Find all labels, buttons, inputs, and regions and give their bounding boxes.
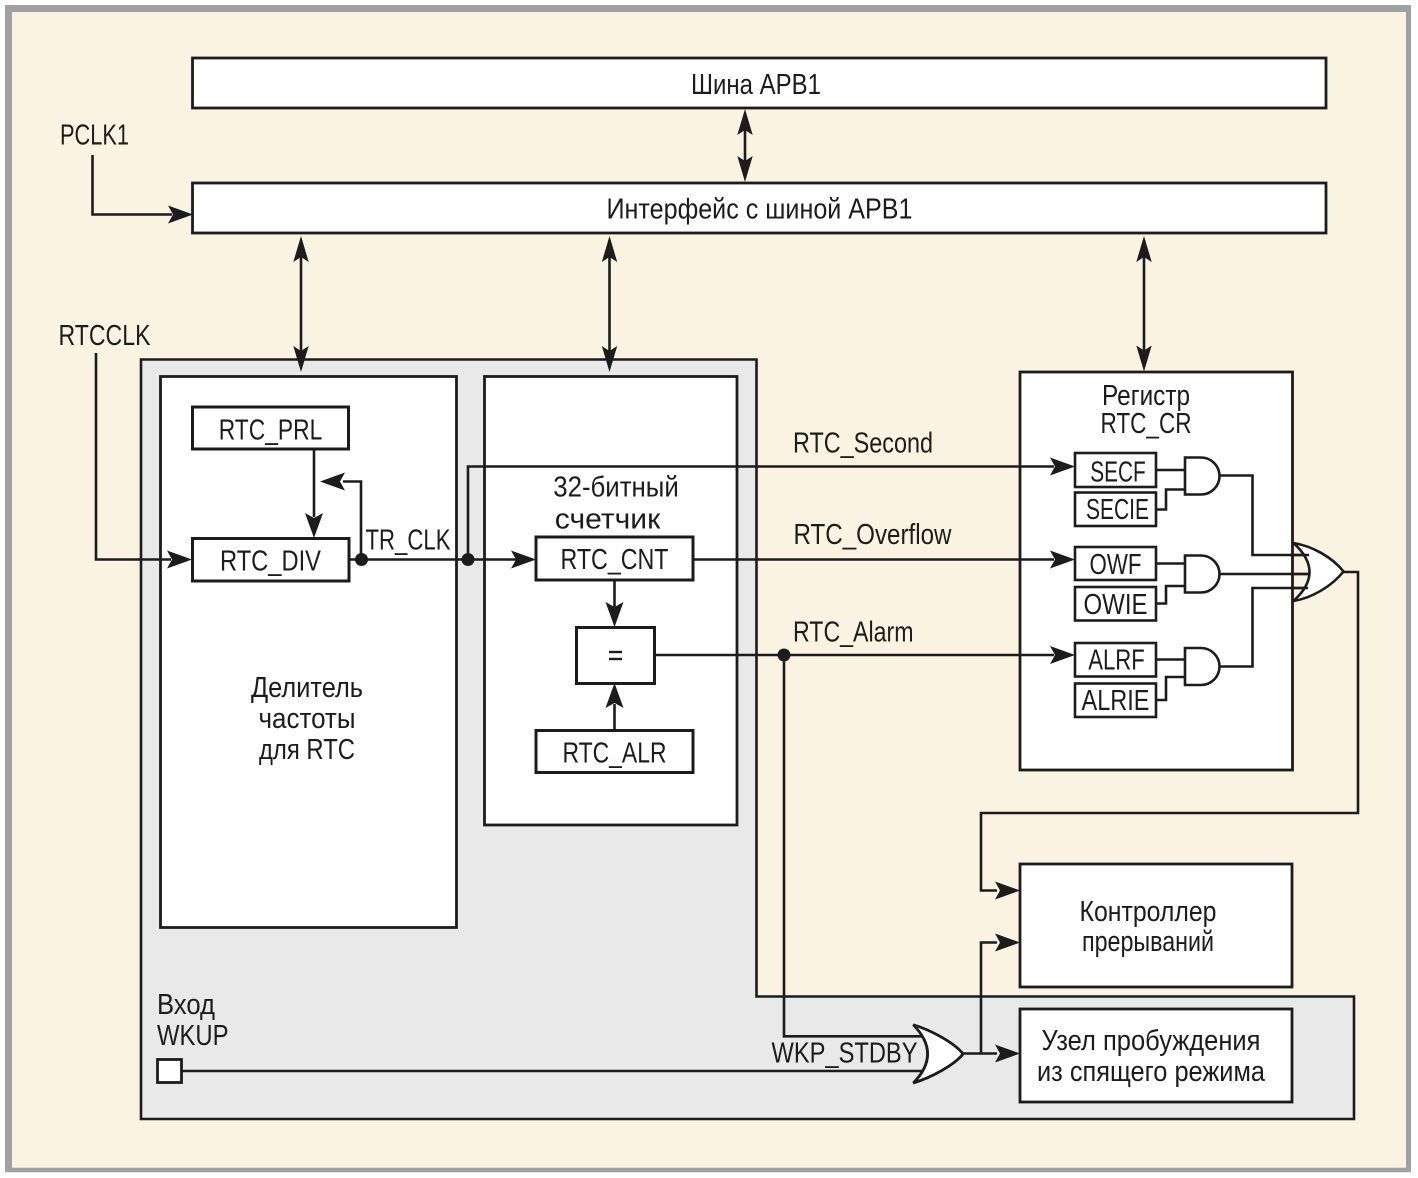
box: interrupt controller — [1020, 864, 1292, 987]
wire: alarm down to wakeup OR — [784, 655, 928, 1036]
svg-text:RTC_PRL: RTC_PRL — [219, 415, 323, 447]
svg-text:RTC_Overflow: RTC_Overflow — [794, 519, 953, 551]
box ALRIE — [1075, 684, 1156, 718]
wire: AND U3 output to OR U4 — [1220, 588, 1319, 667]
double arrow: interface - divider — [300, 240, 303, 366]
box RTC_DIV — [193, 539, 350, 582]
svg-text:Узел пробуждения: Узел пробуждения — [1042, 1025, 1261, 1057]
wire: RTC_Overflow to OWF — [693, 558, 1054, 561]
svg-text:Контроллер: Контроллер — [1080, 896, 1217, 928]
svg-text:ALRIE: ALRIE — [1082, 685, 1150, 717]
AND gate U1 (seconds) — [1185, 458, 1220, 495]
node: alarm junction — [778, 649, 791, 662]
svg-text:Шина APB1: Шина APB1 — [691, 69, 821, 101]
svg-text:RTC_CR: RTC_CR — [1101, 408, 1192, 440]
box SECIE — [1075, 493, 1156, 527]
svg-text:WKUP: WKUP — [157, 1020, 229, 1052]
wire: PCLK1 into interface — [93, 155, 173, 215]
svg-text:PCLK1: PCLK1 — [60, 120, 129, 152]
double arrow: bus - interface — [744, 114, 747, 177]
wire: AND U1 output to OR U4 — [1220, 476, 1319, 556]
box: APB1 interface — [193, 183, 1327, 233]
svg-text:WKP_STDBY: WKP_STDBY — [772, 1038, 918, 1070]
wire: RTC_DIV to RTC_CNT (TR_CLK) — [349, 558, 516, 561]
wire: RTC_Second to SECF — [468, 467, 1054, 560]
wire: OR output to interrupt controller — [981, 572, 1358, 891]
svg-text:OWF: OWF — [1090, 549, 1142, 581]
wire: RTCCLK into RTC_DIV — [96, 353, 171, 560]
svg-text:из спящего режима: из спящего режима — [1037, 1056, 1266, 1088]
box RTC_CNT — [536, 537, 693, 580]
node: counter clock junction — [462, 553, 475, 566]
OR gate U4 (interrupt sum) — [1294, 543, 1344, 601]
WKUP input pad — [158, 1060, 182, 1083]
svg-text:OWIE: OWIE — [1084, 589, 1148, 621]
OR gate U5 (wakeup) — [913, 1025, 963, 1083]
svg-text:Интерфейс с шиной APB1: Интерфейс с шиной APB1 — [607, 194, 913, 226]
box: divider block (Делитель частоты для RTC) — [161, 377, 457, 928]
wire: RTC_PRL to RTC_DIV — [313, 449, 316, 517]
svg-text:RTC_DIV: RTC_DIV — [220, 546, 322, 578]
svg-text:RTCCLK: RTCCLK — [59, 320, 152, 352]
box: 32-bit counter block — [485, 377, 738, 826]
grey RTC domain region — [141, 360, 1354, 1120]
node: TR_CLK junction — [355, 553, 368, 566]
wire stubs: OR inputs over gate — [1290, 554, 1309, 557]
svg-text:SECF: SECF — [1090, 457, 1146, 489]
svg-text:ALRF: ALRF — [1088, 645, 1145, 677]
wire: wakeup OR output — [963, 1052, 998, 1055]
box ALRF — [1075, 643, 1156, 677]
svg-text:Вход: Вход — [157, 989, 215, 1021]
box: register RTC_CR — [1020, 372, 1293, 770]
wire: RTC_ALR to comparator — [613, 704, 616, 730]
wire: WKUP input line — [181, 1070, 928, 1073]
AND gate U2 (overflow) — [1185, 556, 1220, 593]
box: wakeup unit — [1020, 1009, 1292, 1102]
box: comparator (=) — [577, 628, 655, 684]
wire: RTC_Alarm to ALRF — [655, 654, 1055, 657]
double arrow: interface - register — [1143, 240, 1146, 366]
AND gate U3 (alarm) — [1185, 648, 1220, 685]
box RTC_PRL — [193, 407, 349, 449]
wire: RTC_CNT to comparator — [613, 580, 616, 607]
box SECF — [1075, 453, 1156, 487]
wire: AND U2 output to OR U4 — [1220, 573, 1319, 576]
wire: SECF to AND U1 — [1156, 469, 1185, 472]
svg-text:RTC_CNT: RTC_CNT — [561, 544, 669, 576]
box RTC_ALR — [536, 731, 693, 773]
box OWIE — [1075, 587, 1156, 621]
wire: OWIE to AND U2 — [1156, 586, 1185, 604]
svg-text:RTC_Alarm: RTC_Alarm — [793, 617, 914, 649]
svg-text:для RTC: для RTC — [259, 734, 355, 766]
svg-text:счетчик: счетчик — [555, 504, 661, 536]
wire: OWF to AND U2 — [1156, 562, 1185, 565]
svg-text:RTC_ALR: RTC_ALR — [563, 738, 667, 770]
box OWF — [1075, 547, 1156, 580]
svg-text:RTC_Second: RTC_Second — [793, 427, 933, 459]
svg-text:Делитель: Делитель — [251, 672, 363, 704]
svg-text:прерываний: прерываний — [1082, 926, 1214, 958]
box: APB1 bus — [193, 58, 1327, 108]
svg-text:частоты: частоты — [259, 703, 356, 735]
label: equals sign of comparator — [609, 651, 622, 653]
svg-text:32-битный: 32-битный — [553, 472, 679, 504]
wire: ALRIE to AND U3 — [1156, 677, 1185, 700]
wire: branch up to controller — [981, 943, 997, 1054]
svg-text:TR_CLK: TR_CLK — [366, 525, 451, 557]
double arrow: interface - counter — [608, 240, 611, 366]
svg-text:SECIE: SECIE — [1086, 494, 1149, 526]
wire: SECIE to AND U1 — [1156, 490, 1185, 510]
wire: ALRF to AND U3 — [1156, 658, 1185, 661]
wire: reload feedback from TR_CLK node — [343, 482, 361, 560]
